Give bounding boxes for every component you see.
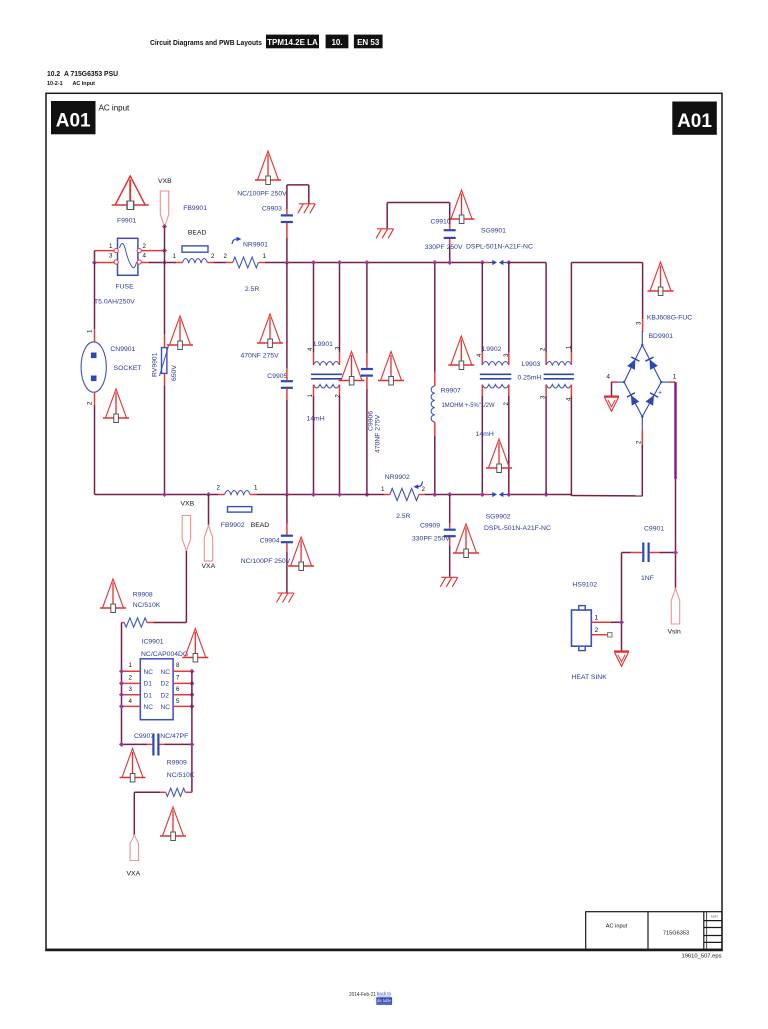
svg-text:FUSE: FUSE — [116, 284, 135, 291]
label C9903 — [262, 206, 282, 213]
svg-text:BEAD: BEAD — [251, 522, 270, 529]
ic IC9901 — [140, 659, 173, 720]
svg-text:6: 6 — [176, 686, 180, 693]
node R9907 top junction — [432, 260, 437, 265]
svg-text:14mH: 14mH — [307, 416, 325, 423]
svg-text:DSPL-501N-A21F-NC: DSPL-501N-A21F-NC — [484, 525, 551, 532]
svg-text:SOCKET: SOCKET — [114, 365, 142, 372]
page header text — [150, 38, 262, 47]
label 330PF 250V C9909 — [412, 536, 450, 543]
label HEAT SINK — [572, 674, 608, 681]
ic IC9901 pin wires right — [173, 662, 194, 709]
capacitor C9909 — [444, 495, 456, 577]
svg-text:C9906: C9906 — [368, 411, 375, 431]
label NC/100PF 250V C9904 — [241, 558, 291, 565]
svg-text:10-2-1: 10-2-1 — [47, 81, 63, 87]
svg-text:AC Input: AC Input — [73, 81, 96, 87]
svg-text:DSPL-501N-A21F-NC: DSPL-501N-A21F-NC — [466, 244, 533, 251]
label NR9902 with arrow — [385, 474, 423, 489]
svg-text:C9905: C9905 — [267, 373, 287, 380]
wire fuse input pin3 — [95, 262, 115, 264]
label R9907 — [441, 388, 461, 395]
svg-text:2: 2 — [224, 253, 228, 260]
svg-text:EN 53: EN 53 — [357, 38, 380, 47]
wire bridge output Vsin — [674, 382, 676, 588]
label C9910 — [431, 219, 451, 226]
ground power bridge — [604, 397, 619, 412]
net flag VXB top — [158, 178, 172, 227]
node C9910 bus junction — [447, 260, 452, 265]
wire fuse pin4 out — [141, 262, 176, 264]
label BEAD — [188, 230, 207, 237]
svg-text:RV9901: RV9901 — [152, 352, 159, 377]
node R9907 bottom junction — [432, 492, 437, 497]
node pin2 junction — [162, 248, 167, 253]
label FUSE — [116, 284, 135, 291]
sheet label A01 left — [51, 101, 96, 134]
capacitor C9903 — [281, 185, 293, 263]
label SG9902 — [486, 514, 511, 521]
label 470NF 275V rotated — [375, 414, 382, 453]
test point C9905 — [257, 314, 283, 348]
svg-text:7: 7 — [176, 674, 180, 681]
ground earth C9903 — [298, 204, 316, 214]
spark gap SG9901 — [482, 260, 509, 265]
svg-text:D1: D1 — [144, 692, 153, 699]
svg-text:R9907: R9907 — [441, 388, 461, 395]
svg-text:1MOHM +-5%"1/2W: 1MOHM +-5%"1/2W — [442, 402, 495, 409]
svg-text:VXB: VXB — [158, 178, 172, 185]
label C9905 — [267, 373, 287, 380]
label NC/CAP004DG — [141, 651, 188, 658]
varistor RV9901 — [152, 345, 179, 381]
svg-text:C9901: C9901 — [644, 526, 664, 533]
label R9908 — [133, 592, 153, 599]
resistor R9908 — [122, 618, 154, 627]
svg-text:4: 4 — [143, 253, 147, 260]
header tab EN 53 — [354, 35, 383, 49]
svg-text:C9907: C9907 — [134, 733, 154, 740]
svg-text:C9904: C9904 — [260, 538, 280, 545]
footer date — [349, 992, 376, 998]
svg-text:AC input: AC input — [606, 924, 628, 930]
wire fuse input pin1 — [95, 250, 115, 252]
svg-text:8: 8 — [176, 662, 180, 669]
svg-text:D2: D2 — [161, 692, 170, 699]
label T5.0AH/250V — [94, 299, 135, 306]
svg-text:NC: NC — [144, 669, 154, 676]
svg-text:FB9902: FB9902 — [221, 522, 245, 529]
svg-text:650V: 650V — [171, 365, 178, 381]
svg-text:SG9901: SG9901 — [481, 228, 506, 235]
svg-text:BD9901: BD9901 — [649, 333, 674, 340]
test point F9901 — [112, 176, 149, 210]
label IC9901 — [142, 639, 164, 646]
header tab TPM14.2E LA — [266, 35, 319, 49]
section title — [47, 69, 118, 87]
node fuse input junction — [92, 260, 97, 265]
svg-text:330PF 250V: 330PF 250V — [412, 536, 450, 543]
svg-text:BEAD: BEAD — [188, 230, 207, 237]
capacitor C9901 — [622, 543, 676, 563]
net flag VXB bottom — [181, 501, 195, 552]
label C9904 — [260, 538, 280, 545]
wire heat sink pin1 — [591, 620, 624, 625]
choke L9902 — [477, 263, 512, 495]
svg-text:F9901: F9901 — [117, 218, 136, 225]
wire R9909 to VXA — [133, 792, 135, 835]
svg-text:715G6353: 715G6353 — [663, 931, 689, 937]
svg-text:NR9901: NR9901 — [243, 242, 268, 249]
svg-text:NC: NC — [144, 704, 154, 711]
label 14mH L9902 — [476, 431, 494, 438]
ferrite bead FB9902 — [217, 485, 259, 513]
wire C9901 left down to heat sink — [621, 553, 623, 651]
label 330PF 250V C9910 — [425, 244, 463, 251]
net flag Vsin — [668, 589, 681, 636]
label C9909 — [420, 523, 440, 530]
node pin4 junction — [162, 260, 167, 265]
svg-text:1: 1 — [263, 253, 267, 260]
label R9909 — [167, 760, 187, 767]
wire L9903 bottom to bridge — [571, 495, 642, 497]
test point R9908 — [100, 579, 126, 613]
ferrite bead FB9901 — [173, 246, 216, 263]
ic IC9901 pin wires left — [119, 662, 140, 709]
label 0.25mH — [518, 375, 542, 382]
test point below socket — [103, 389, 129, 423]
wire RV9901 line lower — [164, 373, 166, 494]
svg-text:NC/CAP004DG: NC/CAP004DG — [141, 651, 188, 658]
svg-text:330PF 250V: 330PF 250V — [425, 244, 463, 251]
svg-text:R9908: R9908 — [133, 592, 153, 599]
footer link back to div table — [376, 991, 392, 1005]
wire RV9901 line upper — [164, 263, 166, 348]
wire R9908 down to IC pins — [121, 623, 123, 745]
node C9903 top bus junction — [284, 260, 289, 265]
svg-text:1: 1 — [109, 243, 113, 250]
label SG9901 — [481, 228, 506, 235]
svg-text:2: 2 — [129, 674, 133, 681]
svg-text:NC/47PF: NC/47PF — [160, 733, 188, 740]
label HS9102 — [573, 582, 598, 589]
svg-text:R9909: R9909 — [167, 760, 187, 767]
label NC/510K R9908 — [133, 602, 161, 609]
label F9901 — [117, 218, 136, 225]
test point R9907 — [448, 336, 474, 370]
svg-text:NC/100PF 250V: NC/100PF 250V — [237, 191, 287, 198]
test point BD9901 — [648, 262, 674, 296]
test point RV9901 — [167, 316, 193, 350]
svg-text:HEAT SINK: HEAT SINK — [572, 674, 608, 681]
svg-text:C9910: C9910 — [431, 219, 451, 226]
svg-text:2: 2 — [143, 243, 147, 250]
svg-text:0.25mH: 0.25mH — [518, 375, 542, 382]
label L9903 — [522, 361, 541, 368]
svg-text:NC/510K: NC/510K — [133, 602, 161, 609]
svg-text:2: 2 — [211, 253, 215, 260]
test point C9907 — [120, 749, 146, 783]
svg-text:14mH: 14mH — [476, 431, 494, 438]
label 1NF — [641, 575, 654, 582]
svg-text:A01: A01 — [677, 111, 712, 132]
svg-text:TPM14.2E LA: TPM14.2E LA — [267, 38, 318, 47]
label FB9902 — [221, 522, 245, 529]
wire bridge pin4 to ground — [611, 382, 613, 396]
svg-text:NC/100PF 250V: NC/100PF 250V — [241, 558, 291, 565]
choke L9901 — [308, 263, 342, 495]
test point C9904 — [288, 537, 314, 571]
wire VXB flag to R9908 — [154, 551, 187, 623]
net flag VXA bottom — [127, 835, 141, 878]
svg-text:VXA: VXA — [127, 871, 141, 878]
svg-text:2.5R: 2.5R — [245, 286, 259, 293]
svg-text:1: 1 — [254, 485, 258, 492]
ground power heat sink — [614, 652, 629, 667]
net flag VXA upper — [202, 495, 216, 571]
wire L9903 top to bridge — [571, 262, 642, 264]
svg-text:NC/510K: NC/510K — [167, 772, 195, 779]
label 2.5R NR9902 — [396, 513, 410, 520]
svg-text:2: 2 — [422, 486, 426, 493]
ground earth C9910 — [376, 229, 394, 239]
svg-text:2.5R: 2.5R — [396, 513, 410, 520]
heat sink HS9102 — [572, 606, 599, 651]
svg-text:19610_507.eps: 19610_507.eps — [682, 954, 722, 960]
wire top bus NR9901 to SG9901 — [265, 262, 482, 264]
svg-text:NR9902: NR9902 — [385, 474, 410, 481]
svg-text:2014-Feb-21: 2014-Feb-21 — [349, 992, 376, 998]
sheet label A01 right — [672, 102, 717, 135]
svg-text:3: 3 — [129, 686, 133, 693]
test point C9910 — [449, 190, 475, 224]
capacitor C9907 — [119, 734, 194, 756]
svg-text:+: + — [658, 390, 662, 397]
svg-text:470NF 275V: 470NF 275V — [375, 414, 382, 453]
wire top bus SG9901 to L9903 — [509, 262, 546, 264]
label L9902 — [483, 346, 502, 353]
ground earth C9909 — [440, 577, 458, 587]
test point right of C9906 — [378, 352, 404, 386]
svg-text:KBJ608G-FUC: KBJ608G-FUC — [647, 315, 692, 322]
capacitor C9906 — [361, 263, 373, 495]
svg-text:C9909: C9909 — [420, 523, 440, 530]
svg-text:1: 1 — [87, 329, 94, 333]
svg-text:2: 2 — [595, 627, 599, 634]
node C9901 output junction — [673, 550, 678, 555]
svg-text:div table: div table — [377, 998, 392, 1003]
label C9907 — [134, 733, 154, 740]
resistor R9907 — [431, 263, 435, 495]
svg-text:2: 2 — [217, 485, 221, 492]
wire VXB to bus — [164, 227, 166, 263]
test point left of C9906 — [339, 352, 365, 386]
label FB9901 — [183, 205, 207, 212]
svg-text:IC9901: IC9901 — [142, 639, 164, 646]
svg-text:4: 4 — [607, 374, 611, 381]
test point C9909 — [453, 524, 479, 558]
svg-text:10.2 A 715G6353 PSU: 10.2 A 715G6353 PSU — [47, 69, 118, 78]
resistor NR9901 — [224, 253, 267, 268]
svg-text:A01: A01 — [56, 111, 91, 132]
svg-text:ASSY: ASSY — [711, 915, 719, 919]
label L9901 — [314, 341, 333, 348]
svg-text:1: 1 — [129, 662, 133, 669]
wire socket line upper — [94, 263, 96, 343]
svg-text:AC input: AC input — [99, 104, 130, 113]
capacitor C9905 — [281, 263, 293, 495]
sheet title AC input — [99, 104, 130, 113]
capacitor C9910 — [444, 203, 456, 263]
wire bottom bus right segment — [509, 494, 572, 496]
svg-text:SG9902: SG9902 — [486, 514, 511, 521]
label NC/47PF — [160, 733, 188, 740]
svg-text:NC: NC — [161, 704, 171, 711]
svg-text:CN9901: CN9901 — [110, 346, 135, 353]
fuse F9901 body — [109, 238, 147, 275]
bridge rectifier BD9901 — [607, 263, 677, 496]
label SOCKET — [114, 365, 142, 372]
wire heat sink pin2 NC — [591, 633, 612, 637]
svg-text:Vsin: Vsin — [668, 629, 681, 636]
svg-text:Circuit Diagrams and PWB Layou: Circuit Diagrams and PWB Layouts — [150, 38, 262, 47]
label 1MOHM value — [442, 402, 495, 409]
svg-text:3: 3 — [109, 253, 113, 260]
label 2.5R — [245, 286, 259, 293]
node bottom bus junctions — [162, 492, 549, 497]
wire C9903 to ground — [287, 185, 309, 203]
svg-text:HS9102: HS9102 — [573, 582, 598, 589]
svg-text:5: 5 — [176, 698, 180, 705]
label NC/510K R9909 — [167, 772, 195, 779]
svg-text:L9903: L9903 — [522, 361, 541, 368]
label KBJ608G-FUC — [647, 315, 692, 322]
node SG9901 left junction — [480, 260, 512, 265]
label 14mH L9901 — [307, 416, 325, 423]
test point IC9901 — [182, 629, 208, 663]
svg-text:1: 1 — [673, 374, 677, 381]
svg-text:VXA: VXA — [202, 563, 216, 570]
svg-text:back to: back to — [377, 991, 392, 997]
label DSPL-501N-A21F-NC bottom — [484, 525, 551, 532]
resistor NR9902 — [381, 486, 426, 501]
node L9901 top bus junction — [311, 260, 342, 265]
resistor R9909 — [134, 788, 192, 796]
header tab 10. — [326, 35, 349, 49]
wire C9910 top to ground — [387, 203, 450, 229]
test point R9909 — [160, 807, 186, 841]
wire bottom bus left segment — [95, 494, 219, 496]
svg-text:FB9901: FB9901 — [183, 205, 207, 212]
wire fuse input tie — [94, 251, 96, 263]
ground earth C9904 — [277, 593, 295, 603]
wire bottom bus to SG9902 — [425, 494, 483, 496]
choke L9903 — [541, 263, 574, 496]
wire fuse pin2 to VXB line — [141, 250, 164, 252]
wire IC right vertical — [191, 671, 193, 792]
test point above SG9902 — [486, 439, 512, 473]
label 470NF 275V C9905 — [241, 353, 280, 360]
svg-text:D1: D1 — [144, 681, 153, 688]
schematic border frame — [45, 93, 723, 950]
node C9906 bottom junction — [364, 492, 369, 497]
wire socket line lower — [94, 392, 96, 495]
label C9901 — [644, 526, 664, 533]
label C9906 rotated — [368, 411, 375, 431]
svg-text:L9902: L9902 — [483, 346, 502, 353]
test point C9903 — [255, 151, 281, 185]
svg-text:470NF 275V: 470NF 275V — [241, 353, 280, 360]
connector CN9901 socket — [81, 329, 106, 405]
svg-text:C9903: C9903 — [262, 206, 282, 213]
label NR9901 with arrow — [232, 237, 268, 249]
label BEAD FB9902 — [251, 522, 270, 529]
node C9906 top junction — [364, 260, 369, 265]
label file name — [682, 954, 722, 960]
svg-text:1: 1 — [595, 615, 599, 622]
svg-text:1: 1 — [173, 253, 177, 260]
svg-text:2: 2 — [87, 401, 94, 405]
label DSPL-501N-A21F-NC top — [466, 244, 533, 251]
svg-text:L9901: L9901 — [314, 341, 333, 348]
capacitor C9904 — [281, 495, 293, 593]
svg-text:10.: 10. — [331, 38, 342, 47]
svg-text:D2: D2 — [161, 681, 170, 688]
svg-text:1: 1 — [381, 486, 385, 493]
label CN9901 — [110, 346, 135, 353]
wire bead to NR9901 — [214, 262, 227, 264]
svg-text:NC: NC — [161, 669, 171, 676]
label NC/100PF 250V — [237, 191, 287, 198]
spark gap SG9902 — [482, 492, 509, 497]
label BD9901 — [649, 333, 674, 340]
node VXB flag tip — [162, 224, 167, 229]
svg-text:1NF: 1NF — [641, 575, 654, 582]
wire bottom bus middle segment — [257, 494, 385, 496]
svg-text:4: 4 — [129, 698, 133, 705]
svg-text:T5.0AH/250V: T5.0AH/250V — [94, 299, 135, 306]
svg-text:VXB: VXB — [181, 501, 195, 508]
title block — [586, 912, 722, 951]
